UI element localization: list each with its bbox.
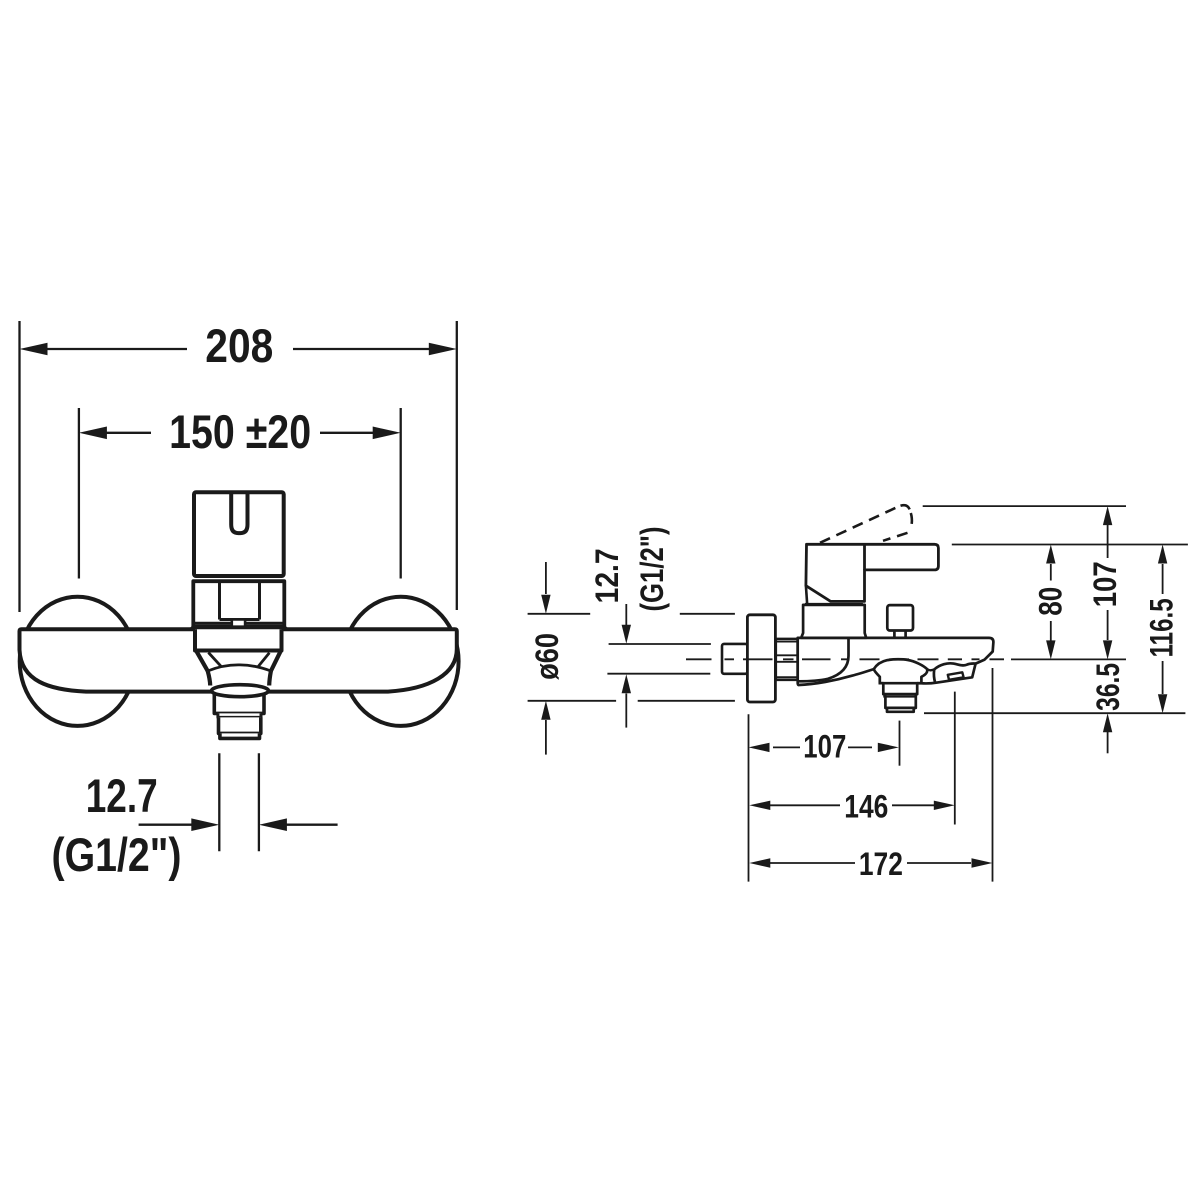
- dim 146 tails: [770, 804, 934, 806]
- centerline (dashed): [686, 658, 1004, 660]
- ext: dashed-handle top level: [923, 505, 1126, 507]
- arrow 150 right: [373, 427, 401, 440]
- svg-text:172: 172: [859, 846, 903, 882]
- aerator cap: [220, 733, 260, 738]
- handle wedge: [806, 586, 807, 605]
- ext line aerator center below: [899, 721, 901, 766]
- arrow 12.7 right (pointing left): [259, 818, 287, 831]
- arrow dia60 down: [541, 595, 550, 614]
- outlet neck: [208, 671, 271, 686]
- arrow 36.5 bottom (outside, up): [1103, 713, 1112, 732]
- cartridge collar (side): [801, 605, 866, 638]
- ext: centerline level right: [1011, 658, 1126, 660]
- aerator section lines: [883, 693, 917, 696]
- aerator shoulder line: [879, 682, 923, 685]
- dim 150 line: [106, 432, 151, 434]
- arrow 116.5 up: [1158, 545, 1167, 564]
- dim 116.5 line: [1162, 564, 1164, 694]
- spout inner S-line: [799, 638, 849, 681]
- svg-text:107: 107: [803, 729, 846, 765]
- arrow 80 up: [1046, 545, 1055, 564]
- svg-text:ø60: ø60: [529, 633, 565, 680]
- flange bottom level lines: [528, 700, 735, 702]
- wall stub: [722, 644, 747, 674]
- ext line 146 right: [954, 692, 956, 825]
- arrow 12.7 left (pointing right): [191, 818, 219, 831]
- ext: handle top level: [952, 544, 1188, 546]
- handle slot: [231, 493, 247, 534]
- valve body + spout + aerator silhouette: [798, 638, 994, 712]
- svg-text:80: 80: [1032, 587, 1068, 616]
- bracket top wavy edge: [934, 663, 975, 669]
- arrow 146 left: [749, 801, 770, 810]
- housing tab: [232, 620, 245, 627]
- arrow 172 left: [749, 858, 770, 867]
- cartridge housing: [193, 581, 284, 626]
- arrow dia60 up: [541, 701, 550, 720]
- svg-text:208: 208: [205, 319, 273, 372]
- handle (side): [806, 544, 939, 601]
- dim 80 line: [1050, 564, 1052, 641]
- wall flange: [747, 615, 775, 702]
- handle body/lever split: [863, 544, 866, 570]
- arrow 107v down (36.5 top): [1103, 640, 1112, 659]
- stub top level line: [609, 643, 711, 645]
- dim 12.7 tails: [139, 824, 192, 826]
- dim 208 line: [47, 348, 187, 350]
- arrow 107h right: [878, 743, 899, 752]
- svg-text:36.5: 36.5: [1090, 663, 1126, 711]
- svg-text:(G1/2"): (G1/2"): [634, 527, 670, 612]
- connection nut: [776, 639, 798, 680]
- aerator rim ellipse: [212, 685, 269, 697]
- bracket slot: [948, 672, 964, 680]
- svg-text:146: 146: [844, 789, 888, 825]
- dim 208 extension lines: [18, 321, 20, 612]
- body bar: [20, 629, 457, 691]
- dia60 dim line bottom: [545, 720, 547, 755]
- housing-bar fillets: [189, 625, 289, 630]
- dim 172 tails: [770, 862, 971, 864]
- outlet collar: [195, 629, 282, 650]
- outlet cone: [196, 651, 281, 671]
- arrow 80 down: [1046, 640, 1055, 659]
- svg-text:12.7: 12.7: [589, 548, 625, 603]
- arrow 12.7 up: [622, 674, 631, 693]
- arrow 12.7 down: [622, 625, 631, 644]
- knob stem: [894, 631, 905, 638]
- dia60 dim line top: [545, 562, 547, 594]
- ext line 172 right: [992, 668, 994, 882]
- arrow 116.5 down: [1158, 694, 1167, 713]
- collar top band: [805, 603, 863, 605]
- bracket left edge: [934, 670, 935, 683]
- ext line flange-left below: [748, 714, 750, 881]
- svg-text:(G1/2"): (G1/2"): [52, 828, 182, 881]
- nut facet lines: [776, 642, 798, 678]
- dim 150 extension lines: [78, 408, 80, 579]
- spout dome: [874, 659, 927, 683]
- aerator step: [218, 713, 261, 717]
- saddle dome-to-bracket: [927, 669, 934, 670]
- dim 36.5 tail below: [1107, 732, 1109, 753]
- housing partition left: [218, 581, 221, 620]
- arrow 150 left: [79, 427, 107, 440]
- 12.7 dim line top: [625, 604, 627, 625]
- svg-text:150 ±20: 150 ±20: [169, 405, 311, 458]
- aerator cylinder: [214, 694, 264, 714]
- dim 107v line: [1107, 525, 1109, 640]
- housing partition right: [258, 581, 261, 620]
- svg-text:12.7: 12.7: [86, 769, 158, 822]
- cone inner left slant: [208, 653, 221, 667]
- dim 107h tails: [773, 746, 872, 748]
- ext: aerator bottom level right: [924, 712, 1185, 714]
- svg-text:116.5: 116.5: [1144, 598, 1180, 657]
- flange top level lines: [528, 613, 735, 615]
- svg-text:107: 107: [1087, 561, 1123, 607]
- arrow 208 right: [429, 343, 457, 356]
- stub bottom level line: [607, 673, 710, 675]
- arrow 107v up: [1103, 506, 1112, 525]
- diverter knob: [887, 605, 913, 630]
- handle raised (dashed): [820, 505, 912, 543]
- arrow 107h left: [749, 743, 770, 752]
- cone inner bowl: [208, 665, 271, 671]
- 12.7 dim line bottom: [625, 694, 627, 728]
- cone inner right slant: [257, 653, 269, 668]
- arrow 146 right: [934, 801, 955, 810]
- housing cover bottom: [220, 618, 260, 621]
- dim 12.7 extension lines: [218, 753, 220, 851]
- handle block: [194, 492, 284, 576]
- right escutcheon: [343, 597, 459, 726]
- housing bottom lip: [194, 622, 284, 624]
- arrow 208 left: [20, 343, 48, 356]
- arrow 172 right: [972, 858, 993, 867]
- left escutcheon: [20, 597, 136, 726]
- aerator thread: [219, 717, 261, 733]
